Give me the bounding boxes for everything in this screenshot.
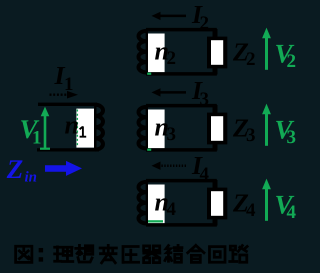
svg-text:2: 2: [167, 48, 177, 69]
svg-text:4: 4: [287, 202, 297, 223]
svg-text:2: 2: [246, 49, 256, 70]
svg-text:3: 3: [167, 124, 177, 145]
svg-text:Z: Z: [6, 154, 24, 184]
svg-text:3: 3: [287, 127, 297, 148]
svg-text:3: 3: [246, 125, 256, 146]
svg-text:4: 4: [167, 199, 177, 220]
svg-text:1: 1: [32, 128, 42, 149]
svg-text:4: 4: [246, 200, 256, 221]
svg-text:2: 2: [287, 51, 297, 72]
svg-text:n: n: [65, 111, 79, 140]
svg-text:in: in: [25, 170, 38, 186]
